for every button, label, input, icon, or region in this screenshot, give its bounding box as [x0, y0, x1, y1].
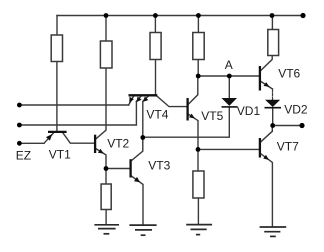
node dot A [227, 74, 232, 79]
wire VT1 collector to VT2 base [63, 133, 94, 143]
wire positive supply rail [57, 15, 303, 17]
transistor VT5 emitter arrow [189, 114, 195, 119]
wire VT5 collector up to node [189, 76, 198, 104]
transistor VT4 emitter2 arrow [136, 97, 141, 103]
wire VT1 emitter lead [44, 133, 53, 143]
svg-text:VT7: VT7 [277, 139, 299, 153]
transistor VT3 emitter arrow [134, 177, 140, 182]
svg-text:VT1: VT1 [49, 148, 71, 162]
wire R1 top lead [56, 16, 58, 36]
node dot VT5 emitter [196, 147, 201, 152]
diode VD1 cathode bar [222, 106, 238, 108]
transistor VT4 emitter3 arrow [143, 97, 149, 102]
svg-text:VT5: VT5 [201, 109, 223, 123]
wire R4 top lead [197, 16, 199, 33]
wire VT6 collector to R5 [261, 56, 272, 71]
resistor R3 [150, 33, 161, 60]
terminal dot rail end [300, 13, 305, 18]
wire R4 bottom lead to node [197, 60, 199, 77]
wire R7 to ground [197, 198, 199, 224]
wire VT7 emitter to ground [261, 154, 272, 227]
wire VT7 collector slant [261, 131, 272, 141]
wire EZ input to VT1 emitter [19, 142, 44, 144]
transistor VT2 base bar [94, 135, 96, 153]
transistor VT6 emitter arrow [264, 82, 270, 87]
wire VT4 emitter3 slant and down to node [143, 97, 148, 138]
transistor VT4 base bar [129, 94, 158, 96]
wire bus input 1 [19, 104, 128, 106]
wire R5 top lead [271, 16, 273, 30]
ground under VT7 [260, 227, 287, 236]
svg-text:VT4: VT4 [146, 107, 168, 121]
ground under R7 [186, 225, 212, 235]
wire node A horizontal [198, 75, 259, 77]
wire R3 top lead [154, 16, 156, 33]
wire R2 top lead [105, 16, 107, 42]
svg-text:VT6: VT6 [278, 67, 300, 81]
wire VD1 cathode down and left to VT3 collector node [143, 108, 230, 138]
resistor R6 [101, 184, 111, 210]
wire VD2 cathode to output node [272, 108, 274, 126]
wire output node to terminal [273, 125, 302, 127]
transistor VT7 emitter arrow [263, 155, 269, 160]
svg-text:VD1: VD1 [237, 104, 261, 118]
wire R3 bottom lead to VT4 base bar [155, 60, 157, 95]
wire VT2 emitter lead down [96, 149, 106, 169]
wire VT3 emitter to ground [132, 176, 143, 224]
diode VD2 triangle [265, 100, 280, 107]
transistor VT1 base bar [48, 131, 67, 133]
wire R6 to ground [105, 210, 107, 225]
wire bus input 2 [19, 102, 136, 126]
wire VT5 emitter node to VT7 base [198, 148, 259, 150]
node dot VT2 emitter [104, 166, 109, 171]
wire VT2 emitter node to R6 [105, 169, 107, 185]
node dot rail-R2 [104, 13, 109, 18]
wire R2 bottom lead to VT2 collector [96, 68, 106, 139]
svg-text:A: A [225, 58, 233, 72]
svg-text:VT2: VT2 [107, 137, 129, 151]
wire VT4 collector to VT5 base [157, 96, 186, 106]
wire R1 bottom lead to VT1 base [56, 62, 58, 131]
wire VT6 emitter to VD2 [261, 82, 273, 90]
node dot rail-R4 [196, 13, 201, 18]
terminal dot input EZ [17, 141, 22, 146]
wire VT4 emitter1 slant [129, 97, 134, 106]
terminal dot input 2 [17, 123, 22, 128]
wire VT5 emitter down [189, 115, 198, 150]
diode VD1 triangle [222, 98, 238, 106]
terminal dot input 1 [17, 103, 22, 108]
transistor VT6 base bar [259, 66, 261, 91]
resistor R1 [51, 35, 62, 62]
wire node to VT3 base [106, 168, 129, 170]
resistor R4 [193, 33, 204, 60]
diode VD2 cathode bar [265, 107, 282, 109]
transistor VT4 emitter1 arrow [129, 97, 134, 103]
terminal dot output [299, 123, 304, 128]
ground under R6 [94, 225, 119, 234]
node dot output [270, 123, 275, 128]
wire VT4 emitter2 slant [136, 97, 140, 102]
svg-text:EZ: EZ [16, 148, 31, 162]
wire VT3 collector lead [132, 138, 143, 161]
node dot rail-R3 [153, 13, 158, 18]
transistor VT2 emitter arrow [98, 149, 104, 154]
transistor VT5 base bar [186, 98, 188, 121]
svg-text:VT3: VT3 [148, 159, 170, 173]
node dot R4-VT5 [196, 74, 201, 79]
node dot VT3 collector [140, 135, 145, 140]
resistor R5 [268, 30, 279, 56]
node dot rail-R5 [270, 13, 275, 18]
wire node to R7 [197, 149, 199, 171]
resistor R7 [193, 171, 204, 198]
ground under VT3 [129, 225, 156, 235]
resistor R2 [100, 41, 112, 68]
transistor VT3 base bar [129, 159, 131, 177]
wire VT7 collector up [271, 126, 273, 132]
transistor VT1 emitter arrow [46, 134, 52, 141]
svg-text:VD2: VD2 [284, 103, 308, 117]
wire VD1 anode lead [228, 76, 230, 98]
transistor VT7 base bar [259, 138, 261, 158]
